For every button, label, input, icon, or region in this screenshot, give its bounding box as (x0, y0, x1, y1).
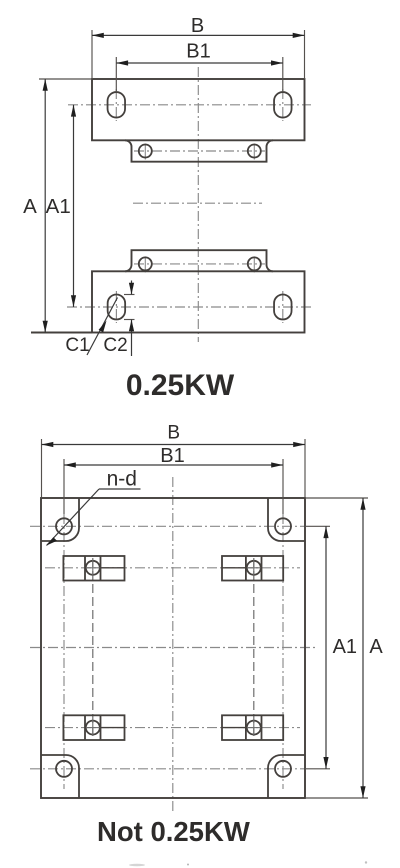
svg-text:n-d: n-d (107, 468, 137, 491)
svg-text:Not 0.25KW: Not 0.25KW (97, 816, 250, 847)
svg-text:0.25KW: 0.25KW (126, 369, 235, 402)
svg-text:C2: C2 (103, 335, 127, 356)
svg-text:B: B (167, 422, 180, 443)
svg-text:C1: C1 (65, 335, 89, 356)
svg-text:A1: A1 (46, 195, 71, 218)
svg-text:B1: B1 (160, 445, 184, 467)
svg-text:A: A (23, 195, 37, 218)
svg-text:B: B (191, 15, 204, 37)
svg-text:B1: B1 (186, 41, 210, 63)
svg-text:A1: A1 (333, 636, 357, 658)
svg-text:A: A (369, 636, 383, 658)
